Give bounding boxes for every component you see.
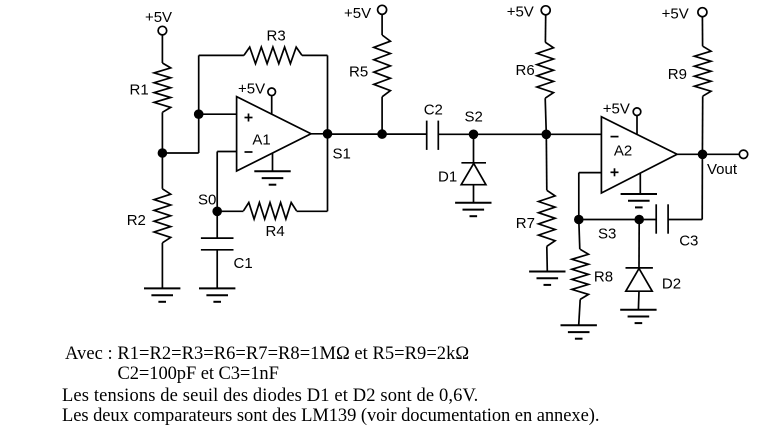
svg-text:Vout: Vout bbox=[707, 161, 738, 178]
svg-text:D1: D1 bbox=[438, 169, 457, 186]
wire A1 minus input bbox=[217, 151, 236, 153]
wire S3 to D2 bbox=[638, 220, 640, 268]
wire A1 ground stem bbox=[272, 153, 274, 172]
capacitor C2 bbox=[424, 102, 443, 150]
wire T1 to R1 bbox=[161, 35, 163, 63]
svg-text:R6: R6 bbox=[516, 62, 535, 79]
ground under C1 bbox=[199, 288, 235, 301]
svg-text:S2: S2 bbox=[465, 109, 483, 126]
svg-text:R8: R8 bbox=[594, 269, 613, 286]
ground under D2 bbox=[620, 310, 656, 323]
svg-text:R5: R5 bbox=[349, 64, 368, 81]
wire R8 to ground bbox=[579, 299, 581, 325]
node S2 bbox=[465, 109, 483, 140]
node C (R6/R7/A2 minus) bbox=[542, 130, 552, 140]
resistor R5 bbox=[349, 35, 390, 97]
wire minus input down to S0 bbox=[216, 152, 218, 212]
node Vout bbox=[698, 150, 738, 179]
svg-text:+5V: +5V bbox=[662, 5, 689, 22]
node B (plus input junction) bbox=[194, 109, 204, 119]
svg-text:+5V: +5V bbox=[507, 4, 534, 21]
svg-text:S3: S3 bbox=[598, 226, 616, 243]
wire A1 output bbox=[311, 133, 328, 135]
caption line 3 bbox=[62, 387, 478, 406]
svg-text:A1: A1 bbox=[252, 131, 270, 148]
ground under A2 bbox=[621, 194, 657, 207]
wire R2 to ground bbox=[161, 243, 163, 289]
node S3 left (R8 tap) bbox=[574, 215, 616, 243]
power +5V terminal T1 (R1 top) bbox=[145, 9, 172, 35]
wire node A to R2 bbox=[161, 153, 163, 189]
resistor R6 bbox=[516, 42, 554, 98]
wire plus input down to S3 bbox=[578, 173, 580, 220]
svg-text:R9: R9 bbox=[668, 66, 687, 83]
wire A2 ground stem bbox=[639, 174, 641, 195]
svg-text:+5V: +5V bbox=[603, 101, 630, 118]
wire A2 +5V bbox=[636, 116, 638, 135]
caption line 2 bbox=[118, 365, 279, 384]
wire node A to riser bbox=[162, 152, 198, 154]
resistor R3 bbox=[244, 27, 302, 63]
svg-text:C3: C3 bbox=[679, 233, 698, 250]
wire D1 to ground bbox=[473, 185, 475, 203]
svg-text:C1: C1 bbox=[234, 255, 253, 272]
node A (R1/R2 junction) bbox=[158, 148, 168, 158]
wire A1 +5V bbox=[271, 96, 273, 115]
wire R6 to rail bbox=[545, 98, 546, 134]
terminal Vout (open circle) bbox=[739, 150, 747, 158]
wire S3 to C3 bbox=[639, 219, 656, 221]
wire S3 to R8 bbox=[579, 220, 580, 250]
caption line 4 bbox=[62, 407, 599, 426]
capacitor C1 bbox=[201, 238, 253, 272]
resistor R1 bbox=[130, 63, 171, 112]
ground under R8 bbox=[561, 325, 597, 338]
wire D2 to ground bbox=[637, 291, 640, 310]
power +5V terminal of A1 bbox=[238, 81, 276, 98]
svg-text:+5V: +5V bbox=[145, 9, 172, 26]
svg-text:R2: R2 bbox=[127, 212, 146, 229]
wire riser (R3 left / plus input) bbox=[198, 55, 200, 153]
svg-text:C2: C2 bbox=[424, 102, 443, 119]
wire R7 to ground bbox=[546, 246, 549, 271]
op-amp A2 bbox=[601, 117, 677, 193]
wire C1 to ground bbox=[216, 250, 218, 289]
capacitor C3 bbox=[656, 204, 698, 249]
svg-text:R1: R1 bbox=[130, 82, 149, 99]
svg-text:D2: D2 bbox=[662, 276, 681, 293]
wire T4 to R9 bbox=[701, 17, 703, 47]
node S1 bbox=[323, 129, 351, 163]
svg-text:R3: R3 bbox=[267, 27, 286, 44]
svg-text:R7: R7 bbox=[516, 215, 535, 232]
svg-text:R4: R4 bbox=[266, 223, 285, 240]
node S0 bbox=[198, 192, 222, 217]
node S3 right (D2/C3 tap) bbox=[634, 215, 644, 225]
power +5V terminal T3 (R6 top) bbox=[507, 4, 551, 21]
wire S2 to D1 bbox=[473, 134, 475, 163]
wire riser top to R3 bbox=[199, 54, 244, 56]
wire S1 rail to C2 bbox=[328, 133, 427, 135]
resistor R8 bbox=[572, 249, 613, 299]
svg-text:+5V: +5V bbox=[238, 81, 265, 98]
wire A2 output to Vout terminal bbox=[677, 153, 739, 155]
power +5V terminal of A2 bbox=[603, 101, 641, 118]
ground under A1 bbox=[254, 171, 290, 184]
wire C3 to Vout column bbox=[668, 219, 702, 221]
ground under R7 bbox=[529, 272, 565, 285]
wire T2 to R5 bbox=[381, 14, 383, 35]
diode D1 bbox=[438, 163, 486, 186]
ground under R2 bbox=[144, 288, 180, 301]
node R5/rail junction bbox=[377, 129, 387, 139]
wire T3 to R6 bbox=[544, 15, 546, 42]
wire S3 link bbox=[579, 219, 639, 221]
resistor R9 bbox=[668, 46, 711, 96]
caption line 1 bbox=[65, 345, 469, 364]
svg-text:A2: A2 bbox=[614, 142, 632, 159]
resistor R2 bbox=[127, 189, 171, 243]
wire R9 to Vout node bbox=[701, 96, 703, 154]
wire R1 to node A bbox=[161, 112, 163, 153]
wire node C to R7 bbox=[545, 134, 548, 190]
diode D2 bbox=[626, 268, 682, 293]
wire R4 to feedback column bbox=[297, 210, 328, 212]
op-amp A1 bbox=[237, 97, 311, 171]
wire Vout column bbox=[701, 154, 703, 219]
resistor R4 bbox=[244, 203, 297, 241]
wire S0 to R4 bbox=[217, 210, 243, 212]
wire feedback column (R3 to S1 to R4) bbox=[327, 55, 329, 211]
svg-text:+5V: +5V bbox=[344, 5, 371, 22]
wire R3 right to feedback column bbox=[302, 54, 328, 56]
wire S0 to C1 bbox=[216, 211, 218, 238]
wire node B to A1 plus input bbox=[199, 113, 237, 115]
svg-text:S0: S0 bbox=[198, 192, 216, 209]
resistor R7 bbox=[516, 190, 555, 246]
power +5V terminal T4 (R9 top) bbox=[662, 5, 707, 22]
wire C2 to A2 minus rail bbox=[438, 133, 601, 135]
wire A2 plus input bbox=[579, 172, 602, 174]
svg-text:S1: S1 bbox=[333, 146, 351, 163]
wire R5 to rail bbox=[381, 97, 383, 134]
power +5V terminal T2 (R5 top) bbox=[344, 5, 387, 22]
ground under D1 bbox=[455, 203, 491, 216]
